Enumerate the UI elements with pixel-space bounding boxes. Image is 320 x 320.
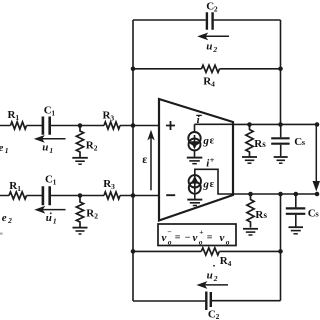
- wire input row 2: [0, 195, 159, 197]
- svg-text:u: u: [206, 41, 212, 53]
- svg-text:1: 1: [53, 217, 57, 226]
- label Rs (row 2): [255, 209, 267, 221]
- svg-text:−: −: [185, 233, 191, 244]
- output voltage label box: [158, 224, 236, 246]
- label gE (top): [202, 135, 214, 147]
- label C1 (row 1): [44, 105, 56, 118]
- svg-text:+: +: [210, 156, 215, 165]
- svg-text:ε: ε: [142, 154, 147, 166]
- label gE (bottom): [202, 178, 214, 190]
- resistor R3 (row 1): [104, 122, 120, 129]
- label C1 (row 2): [45, 174, 57, 187]
- svg-text:o: o: [168, 238, 172, 247]
- svg-text:1: 1: [5, 146, 9, 155]
- svg-text:4: 4: [211, 79, 215, 88]
- ground under R2 (row 2): [73, 228, 88, 234]
- svg-text:o: o: [199, 238, 203, 247]
- resistor Rs (row 2): [247, 194, 254, 228]
- current source gE (top): [188, 132, 200, 151]
- svg-text:u: u: [42, 142, 48, 154]
- voltage arrow u2 (bottom): [196, 281, 228, 289]
- svg-text:4: 4: [228, 259, 232, 268]
- stray mark left edge: [0, 233, 3, 235]
- node dot R4bottom-right: [278, 249, 283, 254]
- svg-text:s: s: [262, 139, 266, 149]
- svg-text:1: 1: [17, 184, 21, 193]
- node dot Cs2: [294, 192, 299, 197]
- wire input row 1: [0, 125, 159, 127]
- node dot R4bottom-left: [131, 249, 136, 254]
- svg-text:2: 2: [213, 274, 218, 283]
- node dot Cs1-vertical junction: [278, 122, 283, 127]
- wire R4-bottom row: [133, 250, 281, 252]
- voltage arrow u2 (top): [197, 33, 229, 41]
- svg-text:2: 2: [7, 216, 12, 225]
- svg-text:v: v: [193, 232, 198, 244]
- wire i-minus to right edge: [195, 124, 234, 132]
- svg-text:s: s: [264, 210, 268, 220]
- label e1: [0, 142, 9, 155]
- label u2 (top): [206, 41, 217, 55]
- resistor R4 (top): [202, 65, 220, 72]
- svg-text:g: g: [202, 135, 209, 147]
- label Cs (row 2): [308, 208, 320, 220]
- node dot row2-left bus junction: [131, 193, 136, 198]
- wire R4-top row: [133, 68, 281, 70]
- label i-plus: [206, 156, 215, 170]
- label e2: [2, 212, 12, 225]
- resistor R2 (row 1): [76, 126, 83, 158]
- label i-minus: [196, 114, 202, 126]
- label R2 (row 1): [86, 140, 98, 153]
- ground under Cs (row 2): [289, 227, 304, 234]
- ground under R2 (row 1): [72, 158, 88, 164]
- label R2 (row 2): [86, 207, 98, 220]
- node dot row2-R2 junction: [78, 193, 83, 198]
- capacitor Cs (row 1): [271, 125, 289, 157]
- node dot right end row 1: [315, 122, 320, 127]
- capacitor C1 (row 1): [43, 117, 50, 135]
- label vo- = -vo+ = vo: [162, 228, 230, 247]
- resistor R1 (row 2): [9, 192, 27, 199]
- resistor R1 (row 1): [11, 122, 27, 129]
- svg-text:g: g: [202, 178, 209, 190]
- svg-text:2: 2: [94, 211, 98, 220]
- svg-text:2: 2: [212, 45, 217, 54]
- wire below bottom source: [194, 194, 196, 199]
- label R4 (top): [203, 75, 215, 88]
- svg-text:=: =: [175, 233, 181, 244]
- svg-text:2: 2: [214, 4, 218, 13]
- voltage arrow u1 (row 1): [34, 135, 66, 143]
- label C2 (top): [206, 0, 218, 13]
- svg-text:o: o: [226, 238, 230, 247]
- capacitor C1 (row 2): [43, 186, 50, 205]
- voltage arrow u1 (row 2): [34, 206, 65, 214]
- label u2-dot (bottom): [207, 265, 218, 283]
- resistor R2 (row 2): [76, 196, 83, 228]
- wire left vertical bus: [132, 20, 134, 301]
- plus input sign: [166, 121, 175, 130]
- label R1 (row 1): [8, 109, 20, 122]
- svg-text:3: 3: [110, 114, 114, 123]
- svg-text:v: v: [220, 232, 225, 244]
- resistor Rs (row 1): [246, 125, 253, 157]
- arrow inside bottom source (up): [191, 176, 199, 193]
- svg-text:s: s: [315, 209, 319, 219]
- wire below top source: [194, 151, 196, 157]
- capacitor C2 (top): [207, 12, 213, 29]
- svg-text:u: u: [207, 270, 213, 282]
- node dot Rs1: [247, 122, 252, 127]
- capacitor C2 (bottom): [206, 292, 211, 311]
- svg-text:e: e: [2, 212, 7, 224]
- label R4 (bottom): [220, 255, 232, 268]
- wire output row 1: [233, 123, 318, 125]
- svg-text:2: 2: [216, 312, 220, 320]
- wire i-plus bracket: [195, 169, 233, 194]
- ground under bottom source: [187, 200, 202, 206]
- wire output row 2: [233, 193, 318, 195]
- wire top rail: [133, 19, 281, 21]
- svg-text:+: +: [199, 228, 203, 237]
- capacitor Cs (row 2): [286, 194, 306, 227]
- svg-text:1: 1: [15, 113, 19, 122]
- svg-text:1: 1: [49, 146, 53, 155]
- epsilon arrow: [147, 130, 154, 191]
- label Rs (row 1): [254, 138, 266, 150]
- svg-text:1: 1: [53, 178, 57, 187]
- resistor R3 (row 2): [104, 192, 120, 199]
- ground under Rs (row 2): [243, 229, 258, 235]
- svg-text:ε: ε: [210, 136, 215, 147]
- node dot Rs2: [248, 192, 253, 197]
- svg-text:ε: ε: [210, 179, 215, 190]
- svg-text:v: v: [162, 232, 167, 244]
- label R1 (row 2): [9, 180, 21, 193]
- op-amp trapezoid U1: [159, 99, 233, 221]
- svg-text:=: =: [207, 233, 213, 244]
- node dot row1-left bus junction: [131, 123, 136, 128]
- node dot R4top-left: [131, 67, 136, 72]
- node dot right end row 2: [315, 192, 320, 197]
- output arrow v (right): [313, 125, 320, 192]
- wire bottom-right vertical: [280, 194, 282, 301]
- wire top-right vertical: [280, 20, 282, 125]
- current source gE (bottom): [189, 175, 201, 194]
- ground under top source: [187, 158, 203, 164]
- svg-text:1: 1: [51, 109, 55, 118]
- svg-text:e: e: [0, 142, 4, 154]
- label u1 (row 1): [42, 142, 53, 156]
- arrow inside top source (down): [191, 135, 199, 149]
- wire bottom rail: [133, 300, 281, 302]
- label R3 (row 2): [103, 178, 115, 191]
- ground under Cs (row 1): [274, 157, 288, 163]
- svg-text:2: 2: [94, 144, 98, 153]
- node dot R4top-right: [278, 67, 283, 72]
- resistor R4 (bottom): [201, 248, 219, 255]
- node dot row1-R2 junction: [78, 123, 83, 128]
- label u1-dot (row 2): [46, 212, 57, 226]
- ground under Rs (row 1): [242, 157, 257, 163]
- label Cs (row 1): [294, 136, 306, 148]
- svg-text:3: 3: [111, 182, 115, 191]
- svg-text:–: –: [167, 228, 172, 236]
- minus input sign: [166, 194, 175, 196]
- label C2 (bottom): [208, 308, 220, 320]
- label R3 (row 1): [103, 110, 115, 123]
- node dot bottom-right vertical junction: [278, 192, 283, 197]
- svg-text:s: s: [302, 137, 306, 147]
